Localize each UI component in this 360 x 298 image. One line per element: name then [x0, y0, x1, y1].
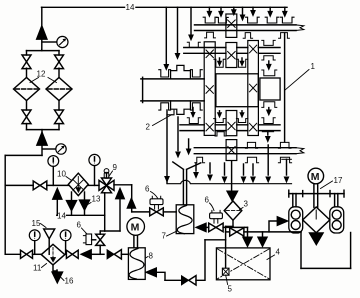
bearing column A — [204, 42, 215, 136]
label 11 — [33, 264, 47, 273]
svg-text:8: 8 — [149, 252, 154, 261]
wire return bus line — [57, 214, 105, 216]
svg-text:5: 5 — [228, 285, 233, 294]
wire strainer suction drop into tank — [225, 232, 227, 268]
label 7 — [162, 231, 178, 241]
pressure valve 6c body — [83, 234, 95, 245]
gearbox: drip line c from header — [189, 7, 194, 40]
hanging cup row below center right — [236, 111, 247, 123]
top output shaft — [195, 25, 304, 31]
oil cup on top shaft 2 — [246, 17, 260, 23]
svg-text:7: 7 — [162, 232, 167, 241]
drip arrow inside housing 2 — [186, 139, 191, 155]
flow arrow up onto main line — [52, 188, 62, 216]
hanging cup below bottom shaft 3 — [278, 157, 291, 163]
oil cup on top shaft 1 — [203, 17, 217, 23]
svg-text:11: 11 — [33, 264, 42, 273]
wire valve 9 bottom drain — [100, 193, 105, 234]
thermostatic valve 9 (four-way) — [99, 178, 114, 193]
cup on bottom shaft left — [245, 142, 257, 148]
pump drive diamond coupling — [303, 207, 330, 233]
suction strainer 5 — [222, 268, 229, 275]
wire line 14 header right segment — [136, 6, 287, 8]
gearbox right wall — [284, 33, 286, 142]
input shaft bottom flange cup right — [190, 103, 202, 110]
svg-text:1: 1 — [311, 62, 316, 71]
gearbox: drip line h from header — [268, 7, 273, 16]
second shaft bars — [184, 48, 280, 54]
valve above filter 12 left — [22, 55, 31, 69]
cup on bottom shaft right — [278, 142, 291, 148]
cup above third shaft right — [262, 118, 275, 124]
screw pump 8 body — [128, 248, 145, 280]
wire filter to lower valve right — [58, 101, 60, 111]
label 16 — [61, 277, 74, 286]
label 10 — [57, 170, 71, 181]
motor M of pump 8 — [127, 218, 145, 236]
drain arrow into funnel 1 — [194, 163, 199, 178]
thermometer on valve 9 — [104, 169, 109, 179]
label 13 — [86, 195, 101, 206]
gearbox: drip line i from header — [282, 7, 287, 16]
gear pump right — [330, 207, 344, 233]
input shaft bottom flange cup left — [159, 103, 171, 110]
wire cooler 7 twin feed pipes — [183, 170, 186, 205]
drain arrow below cooler 10 right — [79, 192, 90, 215]
svg-text:17: 17 — [334, 176, 343, 185]
cup with drip arrow row2 right — [236, 58, 247, 67]
svg-text:M: M — [131, 221, 140, 233]
filter 11 (diamond) — [41, 244, 65, 265]
gearbox left wall with drain arrow — [165, 110, 174, 184]
flow arrow left on suction line — [81, 249, 105, 259]
shutoff valve on main line — [33, 181, 47, 190]
drain arrow to trough 4 — [266, 145, 271, 183]
label 6 for valve 6a — [145, 185, 158, 199]
indicator gauge before valve 9 — [89, 154, 100, 185]
right wall drip bracket and arrow — [282, 159, 292, 182]
cup and arrow below block 1 — [262, 102, 277, 116]
label 4 — [267, 248, 281, 260]
hanging cup below bottom shaft 1 — [195, 157, 205, 163]
oil cup above second shaft 1 — [187, 42, 200, 47]
cup and arrow above block 1 — [262, 61, 277, 76]
label 12 — [30, 70, 57, 83]
label 9 — [109, 163, 118, 177]
wire main line to cooler diamond — [47, 184, 69, 186]
wire filter block down to left frame — [5, 145, 42, 156]
svg-text:9: 9 — [113, 163, 118, 172]
cup above third shaft left — [187, 108, 200, 124]
oil cup above second shaft 2 — [262, 40, 275, 45]
wire branch header of duplex filter — [27, 50, 60, 56]
cup with drip arrow row2 left — [214, 58, 225, 67]
svg-text:16: 16 — [65, 277, 74, 286]
drain arrow 16 below filter 11 — [52, 265, 63, 284]
node label 14 (header pipe) — [126, 3, 135, 12]
wire left frame vertical — [4, 155, 6, 254]
filter 3 (diamond) — [224, 201, 242, 220]
oil cup on top shaft 3 — [265, 17, 279, 23]
pressure valve 6c bowtie (vertical) — [96, 234, 105, 254]
gearbox: drip line f from header — [231, 7, 236, 15]
label 8 — [146, 252, 154, 261]
svg-text:M: M — [311, 171, 320, 183]
cooler 10 (diamond with cross) — [68, 173, 88, 195]
input shaft top flange cup right — [190, 70, 202, 77]
pump unit outlet arrow down — [309, 233, 324, 246]
svg-text:6: 6 — [77, 221, 82, 230]
filter 12 left (diamond) — [14, 78, 40, 101]
svg-text:6: 6 — [205, 196, 210, 205]
node label 14 (return bus) — [57, 211, 66, 220]
cooler 7 body — [176, 205, 194, 234]
gearbox drain arrow into filter 3 — [227, 161, 238, 202]
drip arrow below third shaft — [262, 132, 273, 142]
bearing column C — [248, 41, 259, 136]
oil collection trough — [168, 180, 292, 183]
control valve 6b body — [210, 210, 223, 223]
bottom output shaft — [194, 148, 303, 154]
svg-text:2: 2 — [146, 123, 151, 132]
gearbox: drip line e from header — [219, 7, 224, 16]
flow arrow up on riser under main line — [105, 188, 125, 231]
hanging cup below bottom shaft 2 — [245, 157, 258, 163]
svg-text:12: 12 — [37, 70, 46, 79]
gearbox: drip line g from header — [240, 7, 245, 20]
oil cup on top shaft 4 — [280, 17, 294, 23]
indicator gauge on main line — [48, 156, 59, 186]
drain arrow to trough 1 — [222, 163, 227, 183]
shaft motor to pump 8 — [134, 235, 138, 247]
hanging cup under top shaft 2 — [243, 33, 252, 39]
bracket below second shaft right — [262, 56, 275, 60]
bearing column B bottom — [226, 140, 237, 161]
gearbox: drip line a from header — [164, 7, 169, 70]
svg-text:13: 13 — [92, 195, 101, 204]
check valve on tank suction run — [181, 276, 196, 285]
pressure gauge top-left — [43, 36, 68, 47]
collection funnel — [173, 162, 201, 169]
wire valve to filter left — [26, 68, 28, 77]
gearbox: drip line b from header — [175, 7, 180, 59]
indicator gauge bottom-left 1 — [29, 230, 40, 254]
indicator gauge bottom-left 2 — [60, 230, 71, 254]
shutoff valve bottom-left — [21, 250, 42, 258]
gearbox: drip line g2 from header — [251, 7, 256, 16]
svg-text:4: 4 — [276, 248, 281, 257]
pressure gauge lower-left — [43, 144, 66, 154]
flow arrow into tank left — [243, 237, 253, 247]
shutoff valve bottom-left 2 — [66, 250, 78, 258]
motor 17 — [308, 168, 324, 184]
pump mounting rail — [289, 190, 344, 197]
wire valve 6a to cooler 7 — [163, 211, 176, 213]
svg-text:3: 3 — [244, 200, 249, 209]
breather funnel 15 — [44, 229, 55, 254]
svg-text:6: 6 — [145, 185, 150, 194]
label 2 — [146, 115, 173, 132]
gear block 1 — [260, 78, 280, 100]
wire join header below filters — [27, 124, 60, 132]
label 6 for valve 6b — [205, 196, 215, 211]
bracket below third shaft left — [215, 132, 226, 136]
valve below filter 12 left — [22, 110, 31, 124]
drip line inside housing left — [176, 117, 181, 158]
svg-text:15: 15 — [32, 219, 41, 228]
drain arrow into funnel 2 — [208, 163, 213, 181]
check valve before pump 8 — [107, 250, 128, 259]
input shaft top hat — [171, 65, 191, 79]
drain arrow to trough 2 — [241, 164, 246, 183]
wire filter to lower valve left — [26, 101, 28, 111]
label 1 — [285, 62, 316, 90]
oil cup on top shaft 1b — [217, 17, 229, 23]
input shaft bottom hat — [171, 101, 191, 115]
shutoff valve at tank top — [230, 228, 244, 236]
wire valve 6b outlet to tank drop — [223, 227, 247, 238]
flow arrow into tank right — [258, 237, 268, 247]
control valve 6b bowtie — [209, 223, 223, 232]
oil tank 4 — [216, 248, 270, 280]
wire main supply line left — [5, 184, 33, 186]
input shaft body — [141, 77, 204, 102]
stems rail to right gear pump — [335, 194, 338, 207]
wire riser from filter block to line 14 — [41, 7, 43, 49]
stems rail to left gear pump — [293, 194, 296, 207]
label 6 for valve 6c — [77, 221, 87, 234]
hanging cup under top shaft 3 — [279, 33, 290, 39]
hanging cup row below center left — [214, 111, 226, 123]
wire pump suction manifold — [244, 221, 351, 268]
wire suction from tank strainer run — [165, 240, 226, 280]
bearing column B second — [226, 43, 237, 68]
flow arrow into cooler 7 right side — [196, 223, 209, 232]
svg-text:14: 14 — [126, 3, 135, 12]
input shaft top flange cup left — [159, 70, 171, 77]
wire valve to filter right — [58, 68, 60, 77]
central gear block — [216, 74, 258, 107]
wire valve 9 outlet right then down — [114, 185, 150, 212]
valve above filter 12 right — [55, 55, 64, 69]
hanging cup under top shaft 1 — [205, 32, 216, 38]
wire filter 3 outlet jog — [226, 220, 233, 232]
wire line 14 header left segment — [42, 6, 125, 8]
label 5 — [226, 275, 233, 293]
bearing column B lower — [226, 111, 237, 136]
svg-text:14: 14 — [57, 211, 66, 220]
flow arrow to gear pumps — [277, 216, 288, 225]
shaft motor 17 to pumps — [314, 184, 318, 207]
flow arrow up into filter block — [36, 132, 47, 146]
svg-text:10: 10 — [57, 170, 66, 179]
drain arrow below cooler 10 left — [66, 192, 77, 215]
label 17 — [321, 176, 343, 189]
drain arrow to trough 3 — [251, 164, 256, 183]
wire bottom suction line — [5, 253, 20, 255]
wire main line to valve 9 — [88, 184, 99, 186]
flow arrow up on descending pipe — [127, 198, 136, 209]
label 15 — [32, 219, 47, 228]
gear pump left — [289, 207, 303, 233]
bearing column B upper — [226, 14, 237, 37]
valve below filter 12 right — [55, 110, 64, 124]
third shaft bars — [180, 125, 280, 131]
filter 12 right (diamond) — [46, 78, 72, 101]
control valve 6a bowtie — [150, 208, 164, 216]
gearbox: drip line d from header — [207, 7, 212, 16]
label 3 — [240, 200, 249, 210]
control valve 6a body — [150, 196, 163, 209]
flow arrow up into line 14 — [36, 25, 47, 40]
flow arrow into pump 8 right side — [145, 268, 165, 281]
